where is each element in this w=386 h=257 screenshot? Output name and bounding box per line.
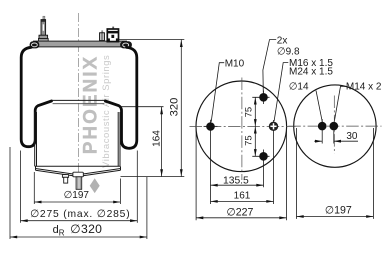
svg-text:Vibracoustic Air Springs: Vibracoustic Air Springs (101, 55, 112, 168)
svg-text:∅197: ∅197 (325, 205, 352, 217)
svg-text:∅275 (max. ∅285): ∅275 (max. ∅285) (30, 209, 130, 220)
svg-text:75: 75 (243, 135, 254, 146)
svg-text:164: 164 (152, 130, 163, 147)
svg-text:320: 320 (169, 98, 181, 117)
svg-text:∅14: ∅14 (289, 82, 309, 93)
svg-text:M10: M10 (225, 58, 245, 69)
svg-text:M24 x 1.5: M24 x 1.5 (289, 67, 333, 78)
svg-text:PHOENIX: PHOENIX (81, 55, 102, 155)
svg-text:∅197: ∅197 (64, 190, 90, 201)
svg-text:∅227: ∅227 (227, 207, 254, 219)
svg-text:161: 161 (234, 191, 251, 202)
svg-text:M14 x 2: M14 x 2 (346, 82, 382, 93)
svg-text:∅9.8: ∅9.8 (277, 46, 300, 57)
svg-text:75: 75 (243, 107, 254, 118)
svg-text:2x: 2x (277, 36, 288, 47)
svg-text:135.5: 135.5 (223, 176, 249, 187)
svg-text:30: 30 (346, 131, 358, 142)
